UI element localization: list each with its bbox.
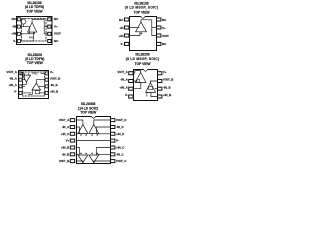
wire V+ stub <box>152 27 157 29</box>
op-amp B <box>146 83 156 93</box>
svg-text:TOP VIEW: TOP VIEW <box>80 110 97 114</box>
svg-text:-IN_B: -IN_B <box>62 152 70 156</box>
package body U1 TDFN <box>17 17 53 45</box>
pin 3 +IN <box>119 34 129 38</box>
op-amp B <box>32 83 41 90</box>
svg-text:-IN_B: -IN_B <box>163 85 171 89</box>
op-amp A <box>135 72 146 82</box>
svg-text:+IN_C: +IN_C <box>116 146 125 150</box>
pin 4 V- <box>125 93 133 98</box>
pin 3 +IN_A <box>119 85 133 90</box>
pin1 notch <box>141 16 146 19</box>
op-amp U1 <box>136 22 147 32</box>
wire +IN to U1 <box>20 32 34 34</box>
pin 2 -IN_A <box>62 125 75 129</box>
pin 6 VOUT <box>157 34 170 38</box>
svg-text:TOP VIEW: TOP VIEW <box>27 61 44 65</box>
pin 8 NC <box>157 18 168 22</box>
pin 13 -IN_D <box>111 125 124 129</box>
wire -IN_A to A <box>77 127 80 134</box>
wire V+ to V- rail <box>77 140 111 142</box>
svg-text:+IN_A: +IN_A <box>61 132 70 136</box>
svg-text:-IN_D: -IN_D <box>116 125 124 129</box>
svg-text:V-: V- <box>116 139 119 143</box>
wire A output to VOUT_A <box>22 73 26 84</box>
wire V+ stub <box>44 26 48 28</box>
svg-text:V+: V+ <box>50 70 54 74</box>
pin 3 +IN <box>11 32 20 36</box>
wire B base tail <box>146 92 148 96</box>
pin 7 VOUT_B <box>45 76 60 81</box>
svg-text:V+: V+ <box>54 24 58 28</box>
package body U2 MSOP <box>134 70 158 101</box>
pin 4 V- <box>14 90 22 95</box>
svg-text:+IN_B: +IN_B <box>61 146 69 150</box>
wire +IN_C to C <box>96 148 110 156</box>
svg-text:V+: V+ <box>66 139 70 143</box>
pin 5 +IN_B <box>61 146 75 150</box>
svg-text:ISL28108: ISL28108 <box>134 1 148 5</box>
wire U1 output to VOUT <box>141 20 157 36</box>
input sign marks U1 <box>28 32 34 33</box>
pin 1 NC <box>119 18 129 22</box>
pin 1 indicator circle <box>21 19 26 24</box>
svg-text:V-: V- <box>13 39 16 43</box>
wire +IN_B to B <box>40 92 46 94</box>
op-amp A <box>22 75 30 82</box>
wire -IN_B stub <box>155 88 158 90</box>
svg-text:V-: V- <box>14 90 17 94</box>
pin 1 indicator circle <box>21 72 24 75</box>
wire A output to VOUT_A <box>134 71 141 74</box>
pin 4 V+ <box>66 139 75 143</box>
wire +IN_B to B <box>77 148 80 156</box>
svg-text:-IN: -IN <box>12 24 16 28</box>
wire V+ stub <box>41 72 45 74</box>
pin 6 -IN_B <box>62 152 75 156</box>
pin 3 +IN_A <box>61 132 75 136</box>
pin 7 VOUT_B <box>158 78 174 83</box>
pin 5 +IN_B <box>158 93 172 98</box>
wire -IN_B to B <box>77 153 79 155</box>
package body U3 SOIC14 <box>77 117 111 164</box>
wire -IN_C to C <box>99 153 111 155</box>
exposed pad (dashed) <box>23 72 45 96</box>
svg-text:+IN_D: +IN_D <box>116 132 124 136</box>
op-amp U1 <box>28 22 37 32</box>
pin 6 -IN_B <box>45 83 57 88</box>
svg-text:PAD: PAD <box>32 72 37 75</box>
svg-text:TOP VIEW: TOP VIEW <box>134 10 151 14</box>
plus mark <box>141 33 142 34</box>
svg-text:TOP VIEW: TOP VIEW <box>135 62 152 66</box>
wire A output to VOUT_A <box>77 120 83 124</box>
wire -IN to U1 <box>130 27 138 29</box>
svg-text:+IN_A: +IN_A <box>119 85 128 89</box>
pad label <box>32 72 37 75</box>
pin 5 NC <box>48 39 59 43</box>
svg-text:(8 LD MSOP, SOIC): (8 LD MSOP, SOIC) <box>125 6 159 10</box>
input stubs A <box>24 73 28 75</box>
wire -IN_D to D <box>96 127 110 134</box>
input box B <box>149 86 153 89</box>
pin 9 -IN_C <box>111 152 125 156</box>
wire V- stub <box>22 92 31 94</box>
svg-text:V+: V+ <box>162 26 166 30</box>
pin 10 +IN_C <box>111 146 126 150</box>
pin 2 -IN_A <box>120 78 133 83</box>
svg-text:-IN_A: -IN_A <box>120 78 129 82</box>
pin 2 -IN <box>119 26 128 30</box>
pin 2 -IN_A <box>9 76 22 81</box>
pin 6 VOUT <box>48 32 62 36</box>
pin1 notch <box>91 116 96 119</box>
svg-text:+IN: +IN <box>119 34 124 38</box>
pin 1 NC <box>12 17 21 21</box>
pin 6 -IN_B <box>158 85 171 90</box>
svg-text:-IN_A: -IN_A <box>62 125 71 129</box>
op-amp B <box>78 155 88 163</box>
svg-text:+IN_A: +IN_A <box>8 83 17 87</box>
wire +IN_A to A <box>77 133 79 135</box>
pin 12 +IN_D <box>111 132 125 136</box>
title ISL28108 TDFN <box>25 1 44 14</box>
pin 1 VOUT_A <box>59 118 75 122</box>
input box B <box>35 91 39 94</box>
input sign marks <box>80 134 98 154</box>
pin 7 V+ <box>157 26 167 30</box>
wire B base tail <box>29 90 33 94</box>
wire +IN_A stub <box>22 85 25 87</box>
op-amp A <box>78 124 88 133</box>
wire +IN_D to D <box>99 133 111 135</box>
wire +IN_A to A <box>134 83 141 89</box>
svg-text:-IN_B: -IN_B <box>50 83 58 87</box>
pin 14 VOUT_D <box>111 118 127 122</box>
svg-text:+IN_B: +IN_B <box>50 90 58 94</box>
pin 8 VOUT_C <box>111 159 128 163</box>
minus mark <box>138 27 139 29</box>
svg-text:V-: V- <box>121 42 124 46</box>
pad label <box>29 37 34 40</box>
svg-text:+IN_B: +IN_B <box>163 93 171 97</box>
wire V- to U1 <box>20 32 33 41</box>
svg-text:V+: V+ <box>163 70 167 74</box>
pin1 notch <box>143 69 148 72</box>
op-amp D <box>89 124 99 133</box>
svg-text:V-: V- <box>125 93 128 97</box>
wire B output to VOUT_B <box>77 161 83 163</box>
circle stem <box>22 24 24 26</box>
pin 8 NC <box>48 17 59 21</box>
pin 8 V+ <box>45 70 54 75</box>
exposed pad (dashed) <box>22 19 47 42</box>
package body U1 MSOP <box>130 17 157 51</box>
svg-text:-IN_C: -IN_C <box>116 152 125 156</box>
wire -IN_A to A <box>134 80 137 82</box>
svg-text:-IN: -IN <box>119 26 123 30</box>
pin 7 V+ <box>48 24 58 28</box>
svg-text:+IN: +IN <box>11 32 16 36</box>
svg-text:-IN_A: -IN_A <box>9 76 18 80</box>
wire C output to VOUT_C <box>94 161 111 163</box>
svg-text:ISL28208: ISL28208 <box>135 52 149 56</box>
pin 8 V+ <box>158 70 167 75</box>
wire D output to VOUT_D <box>94 120 111 124</box>
wire U1 output to VOUT <box>32 20 48 34</box>
pin 5 NC <box>157 42 168 46</box>
svg-text:TOP VIEW: TOP VIEW <box>27 10 44 14</box>
title ISL28108 MSOP <box>125 1 159 14</box>
wire +IN to U1 <box>130 32 140 36</box>
package body U2 TDFN <box>19 71 49 99</box>
title ISL28408 SOIC <box>78 102 98 114</box>
input box A <box>137 79 140 82</box>
pin 11 V- <box>111 139 119 143</box>
svg-text:(8 LD TDFN): (8 LD TDFN) <box>25 5 44 9</box>
pin 7 VOUT_B <box>59 159 75 163</box>
pin 2 -IN <box>12 24 20 28</box>
title ISL28208 TDFN <box>25 53 44 65</box>
wire -IN to U1 <box>20 27 29 32</box>
wire +IN_B to B <box>151 92 158 96</box>
pin 4 V- <box>13 39 20 43</box>
wire B output to VOUT_B <box>150 81 157 83</box>
wire -IN_A to A <box>22 75 24 80</box>
wire -IN_B to B <box>39 85 45 87</box>
svg-text:(8 LD MSOP, SOIC): (8 LD MSOP, SOIC) <box>126 57 160 61</box>
wire B output to VOUT_B <box>36 80 45 84</box>
pin 1 VOUT_A <box>6 70 22 75</box>
pin 1 VOUT_A <box>117 70 133 75</box>
pin 3 +IN_A <box>8 83 22 88</box>
op-amp C <box>89 155 99 163</box>
pin 4 V- <box>121 42 129 46</box>
title ISL28208 MSOP <box>126 52 160 66</box>
pin 5 +IN_B <box>45 90 58 95</box>
